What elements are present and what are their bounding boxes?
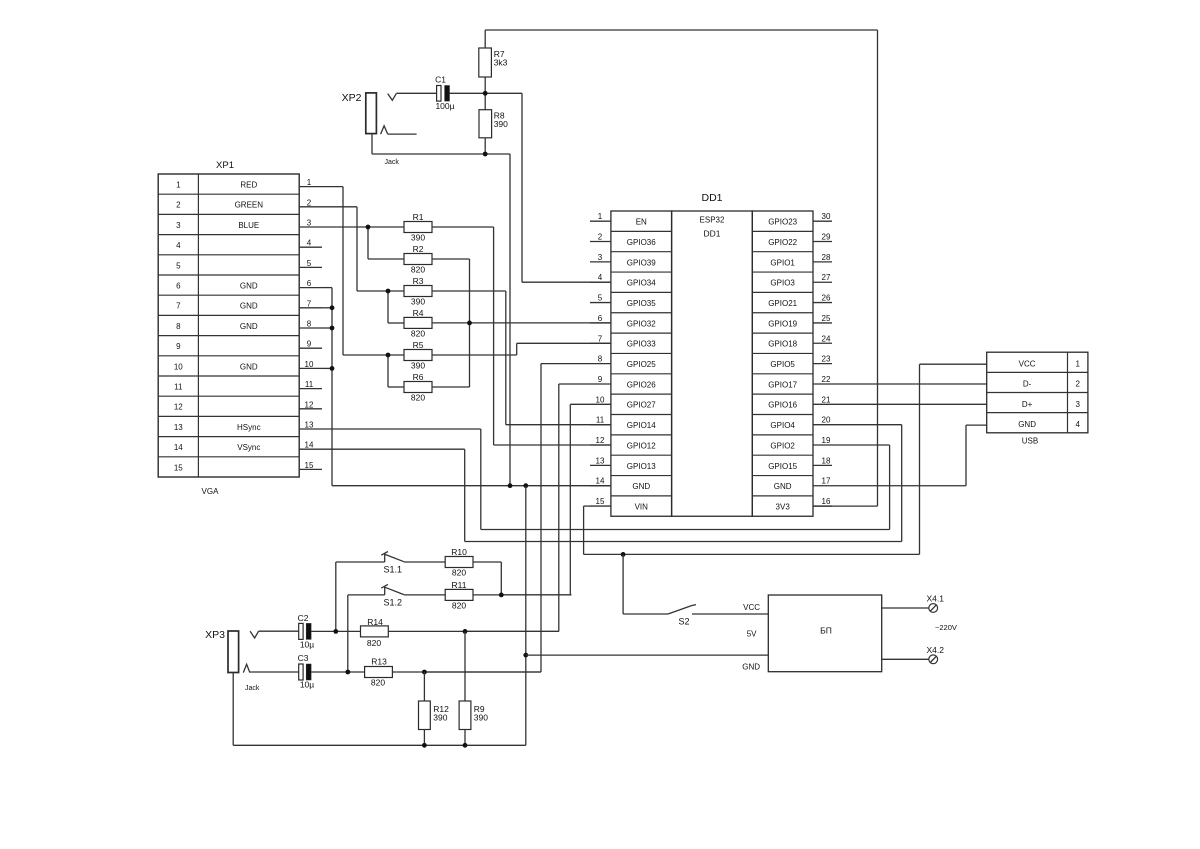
- svg-text:Jack: Jack: [385, 159, 400, 166]
- svg-text:26: 26: [822, 294, 831, 303]
- svg-text:12: 12: [596, 436, 605, 445]
- svg-text:100µ: 100µ: [435, 101, 454, 111]
- svg-text:16: 16: [822, 497, 831, 506]
- svg-text:GPIO23: GPIO23: [768, 218, 797, 227]
- svg-text:390: 390: [411, 233, 425, 243]
- svg-text:GPIO14: GPIO14: [627, 421, 656, 430]
- svg-text:390: 390: [433, 713, 447, 723]
- svg-text:XP3: XP3: [205, 629, 225, 641]
- svg-text:6: 6: [307, 279, 312, 288]
- svg-text:R6: R6: [413, 372, 424, 382]
- svg-text:GPIO35: GPIO35: [627, 299, 656, 308]
- svg-text:9: 9: [307, 340, 312, 349]
- svg-text:820: 820: [411, 329, 425, 339]
- svg-text:GPIO33: GPIO33: [627, 340, 656, 349]
- svg-text:GPIO32: GPIO32: [627, 319, 656, 328]
- svg-text:R13: R13: [371, 657, 387, 667]
- svg-text:390: 390: [411, 297, 425, 307]
- svg-text:GPIO1: GPIO1: [770, 258, 795, 267]
- svg-text:14: 14: [174, 443, 183, 452]
- svg-text:390: 390: [474, 713, 488, 723]
- svg-text:10µ: 10µ: [300, 640, 314, 650]
- svg-text:5: 5: [176, 261, 181, 270]
- svg-text:18: 18: [822, 456, 831, 465]
- svg-text:GPIO15: GPIO15: [768, 462, 797, 471]
- svg-text:БП: БП: [820, 626, 832, 636]
- svg-text:GND: GND: [632, 482, 650, 491]
- svg-text:GPIO16: GPIO16: [768, 401, 797, 410]
- svg-text:12: 12: [174, 403, 183, 412]
- svg-text:10: 10: [305, 360, 314, 369]
- svg-text:30: 30: [822, 212, 831, 221]
- svg-text:R4: R4: [413, 308, 424, 318]
- svg-text:6: 6: [176, 282, 181, 291]
- svg-text:2: 2: [307, 198, 312, 207]
- svg-text:~220V: ~220V: [935, 623, 957, 632]
- svg-text:HSync: HSync: [237, 423, 261, 432]
- svg-text:D-: D-: [1023, 380, 1032, 389]
- svg-text:4: 4: [176, 241, 181, 250]
- svg-text:9: 9: [598, 375, 603, 384]
- svg-text:DD1: DD1: [701, 192, 722, 204]
- svg-text:8: 8: [176, 322, 181, 331]
- svg-text:390: 390: [494, 119, 508, 129]
- svg-text:1: 1: [307, 178, 312, 187]
- svg-text:11: 11: [174, 383, 183, 392]
- svg-text:R3: R3: [413, 276, 424, 286]
- svg-text:14: 14: [305, 441, 314, 450]
- svg-text:29: 29: [822, 233, 831, 242]
- svg-text:15: 15: [596, 497, 605, 506]
- svg-text:VIN: VIN: [635, 502, 649, 511]
- svg-text:14: 14: [596, 477, 605, 486]
- svg-text:390: 390: [411, 361, 425, 371]
- svg-text:VSync: VSync: [237, 443, 260, 452]
- svg-text:GPIO27: GPIO27: [627, 401, 656, 410]
- svg-text:S1.1: S1.1: [384, 565, 403, 575]
- svg-text:GPIO12: GPIO12: [627, 441, 656, 450]
- svg-text:17: 17: [822, 477, 831, 486]
- svg-text:GND: GND: [742, 663, 760, 672]
- svg-text:S2: S2: [678, 617, 689, 627]
- svg-text:GPIO13: GPIO13: [627, 462, 656, 471]
- svg-text:GPIO5: GPIO5: [770, 360, 795, 369]
- svg-text:4: 4: [1075, 420, 1080, 429]
- svg-text:5: 5: [598, 294, 603, 303]
- svg-text:1: 1: [1075, 359, 1080, 368]
- svg-text:4: 4: [598, 273, 603, 282]
- svg-text:S1.2: S1.2: [384, 597, 403, 607]
- svg-text:27: 27: [822, 273, 831, 282]
- svg-text:GREEN: GREEN: [235, 201, 264, 210]
- svg-text:VCC: VCC: [743, 603, 760, 612]
- svg-text:R14: R14: [367, 617, 383, 627]
- svg-text:1: 1: [176, 181, 181, 190]
- svg-text:GND: GND: [240, 322, 258, 331]
- svg-text:GND: GND: [240, 302, 258, 311]
- svg-text:12: 12: [305, 400, 314, 409]
- svg-text:ESP32: ESP32: [700, 216, 725, 225]
- svg-text:GND: GND: [240, 362, 258, 371]
- svg-text:3: 3: [1075, 400, 1080, 409]
- svg-text:6: 6: [598, 314, 603, 323]
- svg-text:GND: GND: [240, 282, 258, 291]
- svg-text:D+: D+: [1022, 400, 1033, 409]
- svg-text:5: 5: [307, 259, 312, 268]
- svg-text:10: 10: [174, 362, 183, 371]
- svg-text:GPIO26: GPIO26: [627, 380, 656, 389]
- svg-text:2: 2: [176, 201, 181, 210]
- svg-text:20: 20: [822, 416, 831, 425]
- svg-text:2: 2: [1075, 380, 1080, 389]
- svg-text:XP2: XP2: [342, 92, 362, 104]
- svg-text:7: 7: [598, 334, 603, 343]
- svg-text:15: 15: [174, 463, 183, 472]
- svg-text:GPIO18: GPIO18: [768, 340, 797, 349]
- svg-text:R11: R11: [452, 580, 467, 590]
- svg-text:820: 820: [367, 638, 381, 648]
- svg-text:GND: GND: [774, 482, 792, 491]
- svg-text:10µ: 10µ: [300, 680, 314, 690]
- svg-text:1: 1: [598, 212, 603, 221]
- svg-text:DD1: DD1: [703, 229, 720, 239]
- svg-text:R10: R10: [451, 547, 467, 557]
- svg-text:24: 24: [822, 334, 831, 343]
- svg-text:25: 25: [822, 314, 831, 323]
- svg-text:8: 8: [307, 320, 312, 329]
- svg-text:XP1: XP1: [216, 160, 234, 171]
- svg-text:3V3: 3V3: [776, 502, 791, 511]
- svg-text:USB: USB: [1022, 437, 1038, 446]
- svg-text:820: 820: [452, 568, 466, 578]
- svg-text:4: 4: [307, 239, 312, 248]
- svg-text:13: 13: [174, 423, 183, 432]
- svg-text:R2: R2: [413, 244, 424, 254]
- svg-text:GPIO36: GPIO36: [627, 238, 656, 247]
- svg-text:GPIO17: GPIO17: [768, 380, 797, 389]
- svg-text:2: 2: [598, 233, 603, 242]
- svg-text:EN: EN: [636, 218, 647, 227]
- svg-text:BLUE: BLUE: [238, 221, 259, 230]
- svg-text:21: 21: [822, 395, 831, 404]
- svg-text:VCC: VCC: [1019, 359, 1036, 368]
- svg-text:15: 15: [305, 461, 314, 470]
- svg-text:X4.2: X4.2: [927, 645, 945, 655]
- svg-text:GPIO22: GPIO22: [768, 238, 797, 247]
- svg-text:GPIO3: GPIO3: [770, 279, 795, 288]
- svg-text:R1: R1: [413, 212, 424, 222]
- svg-text:Jack: Jack: [245, 685, 260, 692]
- svg-text:3k3: 3k3: [494, 58, 508, 68]
- svg-text:9: 9: [176, 342, 181, 351]
- svg-text:GPIO4: GPIO4: [770, 421, 795, 430]
- svg-text:13: 13: [305, 421, 314, 430]
- svg-text:5V: 5V: [747, 630, 757, 639]
- svg-text:23: 23: [822, 355, 831, 364]
- svg-text:GPIO34: GPIO34: [627, 279, 656, 288]
- svg-text:GPIO2: GPIO2: [770, 441, 795, 450]
- svg-text:10: 10: [596, 395, 605, 404]
- svg-text:11: 11: [305, 380, 314, 389]
- svg-text:X4.1: X4.1: [927, 594, 945, 604]
- svg-text:7: 7: [307, 299, 312, 308]
- svg-text:7: 7: [176, 302, 181, 311]
- svg-text:22: 22: [822, 375, 831, 384]
- svg-text:C2: C2: [298, 613, 309, 623]
- svg-text:3: 3: [307, 219, 312, 228]
- svg-text:820: 820: [371, 678, 385, 688]
- svg-text:C3: C3: [298, 653, 309, 663]
- svg-text:19: 19: [822, 436, 831, 445]
- svg-text:11: 11: [596, 416, 605, 425]
- svg-text:GPIO19: GPIO19: [768, 319, 797, 328]
- svg-text:13: 13: [596, 456, 605, 465]
- svg-text:820: 820: [411, 265, 425, 275]
- svg-text:3: 3: [598, 253, 603, 262]
- svg-text:GPIO21: GPIO21: [768, 299, 797, 308]
- svg-text:R5: R5: [413, 340, 424, 350]
- svg-text:GPIO25: GPIO25: [627, 360, 656, 369]
- svg-text:GND: GND: [1018, 420, 1036, 429]
- svg-text:8: 8: [598, 355, 603, 364]
- svg-text:3: 3: [176, 221, 181, 230]
- svg-text:820: 820: [411, 393, 425, 403]
- svg-text:820: 820: [452, 601, 466, 611]
- svg-text:VGA: VGA: [202, 487, 220, 496]
- svg-text:RED: RED: [240, 181, 257, 190]
- svg-text:GPIO39: GPIO39: [627, 258, 656, 267]
- svg-text:28: 28: [822, 253, 831, 262]
- svg-text:C1: C1: [435, 75, 446, 85]
